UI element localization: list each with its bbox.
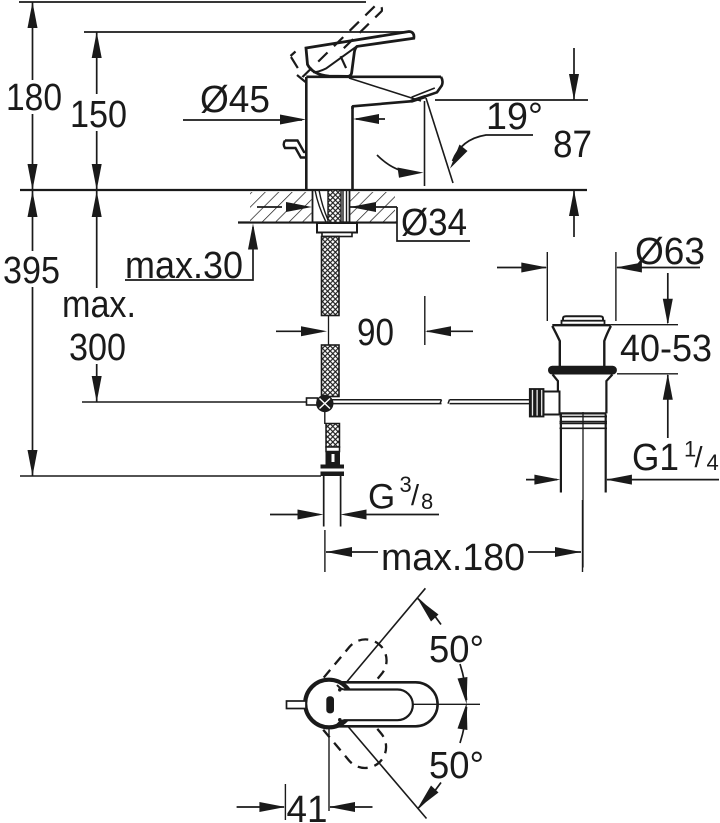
handle logo blob — [326, 696, 334, 713]
solid capsule — [307, 682, 438, 726]
50 deg arc lower — [417, 783, 441, 809]
svg-text:8: 8 — [421, 489, 433, 514]
hose break centerline — [328, 316, 330, 346]
pop-up rod horizontal — [307, 400, 530, 404]
diagonal centerline lower — [344, 722, 426, 818]
svg-text:G: G — [368, 478, 395, 517]
svg-text:max.180: max.180 — [381, 537, 525, 579]
svg-text:Ø34: Ø34 — [401, 202, 467, 244]
pop-up rod lever — [284, 141, 307, 158]
spout chamfer edge — [349, 78, 421, 101]
drain side knob — [544, 392, 560, 415]
19 degree stream line — [426, 98, 453, 183]
svg-text:50°: 50° — [429, 629, 484, 671]
G3/8 tail tube — [323, 476, 325, 527]
threaded shank cross-section — [328, 190, 341, 223]
svg-text:Ø63: Ø63 — [635, 231, 705, 273]
rod end cap — [307, 398, 318, 405]
lever (solid) — [306, 32, 414, 77]
mounting nut — [317, 223, 357, 233]
faucet body — [306, 77, 441, 190]
counter bottom line — [238, 221, 397, 223]
inner stadium — [344, 690, 413, 721]
dashed capsule lower — [299, 674, 395, 777]
drain: Ø63 extension lines — [546, 252, 548, 321]
svg-text:4: 4 — [707, 450, 719, 475]
extension line rod level — [82, 401, 306, 403]
lever raised (dashed) — [291, 4, 382, 82]
extension line top (raised lever height) — [19, 1, 366, 3]
svg-text:40-53: 40-53 — [620, 328, 712, 370]
extension line solid lever top — [84, 31, 408, 33]
svg-text:50°: 50° — [429, 745, 484, 787]
50 deg arc upper — [417, 598, 441, 624]
spout nose and aerator — [353, 77, 443, 109]
aerator insert line — [412, 88, 435, 97]
horizontal centerline — [413, 703, 480, 705]
pivot circle — [305, 680, 353, 728]
dimension max.300 — [96, 191, 98, 402]
svg-text:180: 180 — [6, 77, 62, 119]
lever inner edge — [313, 47, 357, 73]
dimension 40-53 — [611, 324, 678, 326]
drain o-ring — [548, 366, 617, 375]
extension line hose bottom — [20, 475, 321, 477]
svg-text:/: / — [695, 442, 704, 474]
ferrule — [326, 447, 340, 452]
rod junction ball — [316, 395, 333, 412]
svg-text:3: 3 — [400, 472, 412, 497]
diagonal centerline upper — [344, 588, 425, 685]
swivel arc arrow — [377, 155, 417, 173]
aerator outlet thick edge — [411, 97, 426, 102]
svg-text:300: 300 — [69, 327, 126, 369]
dimension 150 — [96, 32, 98, 190]
dimension 41 — [284, 784, 286, 820]
lower hose to connector — [326, 424, 340, 448]
svg-text:Ø45: Ø45 — [200, 79, 270, 121]
counter hatching right — [350, 192, 395, 222]
dimension 90 — [276, 330, 322, 332]
dimension max.180 — [324, 530, 326, 572]
drain body — [553, 375, 613, 414]
stub below ball — [324, 412, 326, 424]
connector black — [326, 452, 341, 465]
drain tailpipe — [560, 415, 608, 493]
braided hose lower — [322, 345, 340, 397]
svg-text:395: 395 — [3, 250, 60, 292]
svg-text:/: / — [411, 480, 420, 512]
svg-text:41: 41 — [287, 789, 328, 823]
svg-text:87: 87 — [553, 124, 592, 166]
drain push cap — [563, 316, 603, 321]
dimension G3/8 — [270, 514, 319, 516]
spout reach extension — [424, 296, 426, 345]
drain trumpet — [552, 324, 611, 326]
counter top line — [20, 189, 587, 191]
dashed capsule upper — [299, 631, 395, 734]
counter hatching left — [250, 192, 312, 222]
braided hose upper — [322, 237, 340, 316]
svg-text:19°: 19° — [486, 96, 543, 138]
svg-text:G1: G1 — [632, 437, 679, 479]
svg-text:150: 150 — [70, 94, 127, 136]
dimension Ø63 — [497, 267, 546, 269]
drain centerline — [582, 412, 584, 568]
svg-text:max.: max. — [62, 284, 136, 326]
aerator vertical reference — [424, 101, 426, 186]
vertical centerline — [328, 728, 330, 811]
dimension 180 — [32, 2, 34, 190]
dimension Ø34 — [257, 206, 282, 208]
dimension 87 — [435, 99, 588, 101]
hose curves in deck — [315, 190, 328, 222]
svg-text:90: 90 — [357, 312, 394, 354]
pin — [287, 701, 307, 709]
deck hole edges — [312, 190, 314, 223]
dimension 395 — [32, 191, 34, 476]
connector nut — [321, 465, 345, 477]
dimension G1 1/4 — [526, 479, 557, 481]
